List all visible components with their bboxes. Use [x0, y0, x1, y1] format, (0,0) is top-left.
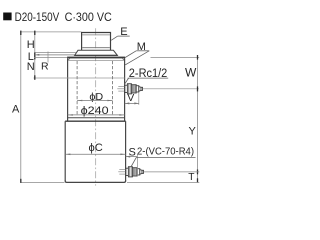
- rod top extension line: [20, 31, 81, 33]
- VC underline: [136, 156, 195, 158]
- internal gland line: [34, 77, 125, 79]
- svg-text:A: A: [12, 104, 20, 116]
- phi C dimension line: [65, 154, 125, 156]
- lower coupler fitting: [126, 167, 144, 177]
- upper body sides: [68, 58, 125, 121]
- svg-text:C·300 VC: C·300 VC: [65, 10, 112, 24]
- hidden bore line left: [76, 61, 78, 116]
- T port extension line: [144, 171, 200, 173]
- W port center extension: [143, 88, 199, 90]
- M leader right: [125, 51, 149, 65]
- 2-Rc1/2 underline: [128, 77, 169, 79]
- R tick vertical: [47, 52, 49, 63]
- centerline: [95, 28, 97, 185]
- bottom right extension: [127, 182, 199, 184]
- HLN dimension line: [34, 32, 36, 78]
- R arrow line: [35, 54, 75, 56]
- svg-text:ϕD: ϕD: [89, 91, 103, 103]
- svg-text:W: W: [185, 65, 197, 79]
- upper body top band: [67, 57, 125, 59]
- upper body left chamfer: [68, 58, 70, 60]
- svg-text:Y: Y: [189, 126, 197, 138]
- rod top edge: [81, 32, 111, 34]
- upper port hidden hole: [117, 87, 124, 92]
- A dimension line: [20, 32, 22, 183]
- svg-text:V: V: [127, 92, 134, 104]
- svg-text:H: H: [27, 39, 35, 51]
- M underline: [136, 50, 149, 52]
- collar: [75, 50, 118, 55]
- V extension line: [138, 93, 140, 105]
- A dim ticks: [20, 31, 21, 183]
- hidden bore line right: [112, 61, 114, 116]
- rod bottom neck line: [82, 47, 110, 49]
- phi 240 dimension line: [68, 114, 125, 116]
- title square: [3, 13, 11, 21]
- HLN ticks: [34, 31, 35, 80]
- E leader: [111, 36, 118, 40]
- upper body chamfer line: [69, 60, 124, 62]
- collar top extension line: [34, 52, 76, 54]
- 2-Rc1/2 leader: [124, 78, 128, 85]
- plunger rod: [82, 33, 111, 50]
- step line between bodies: [68, 117, 125, 119]
- svg-text:N: N: [27, 61, 35, 73]
- svg-text:D20-150V: D20-150V: [15, 10, 60, 24]
- body top left extension: [34, 57, 67, 59]
- upper body right chamfer: [122, 58, 124, 60]
- lower port hidden hole: [118, 170, 125, 175]
- svg-text:2-(VC-70-R4): 2-(VC-70-R4): [137, 146, 194, 157]
- lower body sides: [65, 121, 125, 181]
- S extension vertical: [136, 154, 138, 177]
- svg-text:ϕC: ϕC: [89, 142, 103, 154]
- svg-text:T: T: [188, 172, 194, 183]
- M leader left: [125, 51, 136, 58]
- svg-text:M: M: [137, 41, 146, 53]
- V dimension line: [125, 102, 139, 104]
- bottom left extension: [20, 182, 64, 184]
- phi D dimension line: [77, 100, 113, 102]
- right dimension line: [197, 57, 199, 182]
- S dimension line: [126, 156, 138, 158]
- upper coupler fitting: [125, 84, 143, 94]
- right top extension line: [151, 56, 200, 58]
- VC leader: [131, 157, 136, 167]
- E underline: [118, 35, 130, 37]
- lower body bottom edge: [65, 180, 125, 182]
- right dim ticks: [197, 55, 198, 183]
- rod chamfer line: [82, 34, 110, 36]
